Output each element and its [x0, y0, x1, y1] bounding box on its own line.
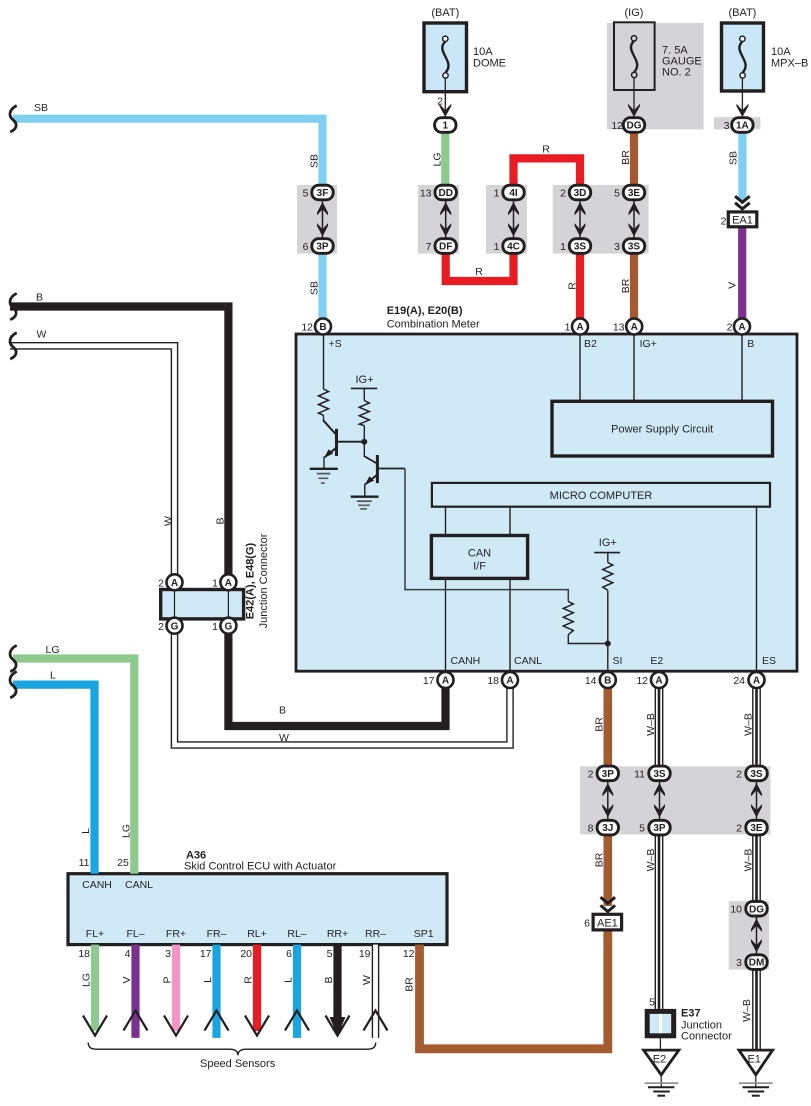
junction node on IG+ line [361, 439, 367, 445]
shading behind connector 1A [714, 117, 760, 129]
junction connector E42(A) E48(G) body [161, 590, 244, 619]
meter pin 18 A [502, 672, 518, 688]
junction node SI [605, 641, 611, 647]
connector 3S/3P arrows [654, 782, 665, 819]
svg-text:3P: 3P [602, 769, 615, 780]
junction pin 1 G [220, 618, 236, 634]
svg-text:AE1: AE1 [597, 917, 618, 929]
svg-text:B: B [279, 705, 286, 717]
junction pin 2 G [167, 618, 183, 634]
svg-text:CANH: CANH [82, 879, 112, 891]
wire ES from micro computer to pin 24 [756, 507, 758, 673]
svg-text:R: R [243, 976, 255, 984]
svg-text:DD: DD [438, 188, 452, 199]
svg-text:MICRO COMPUTER: MICRO COMPUTER [550, 490, 653, 502]
svg-text:4C: 4C [507, 242, 520, 253]
svg-text:1: 1 [212, 578, 218, 590]
svg-text:A: A [738, 322, 745, 333]
svg-text:A: A [225, 578, 232, 589]
svg-text:G: G [171, 621, 179, 632]
svg-text:W–B: W–B [741, 999, 753, 1022]
connector oval 3D [569, 185, 590, 200]
wire +S inside meter from pin 12 [323, 334, 325, 389]
meter pin 1 A [572, 319, 588, 335]
ground inside meter at Q2 [351, 497, 379, 509]
svg-text:11: 11 [79, 857, 90, 869]
svg-text:LG: LG [121, 824, 133, 838]
svg-text:V: V [121, 976, 133, 983]
wire BR from fuse GAUGE to connector 3E [630, 128, 638, 190]
svg-text:3P: 3P [653, 823, 666, 834]
svg-text:DG: DG [627, 121, 642, 132]
skid control ECU A36 body [68, 874, 447, 945]
connector oval DG [623, 118, 644, 133]
svg-text:LG: LG [46, 644, 60, 656]
svg-text:W: W [163, 516, 175, 526]
svg-text:BR: BR [620, 150, 632, 165]
shading behind connector DG/DM [729, 901, 769, 969]
svg-text:W–B: W–B [645, 849, 657, 872]
arrow down speed sensor RR+ [326, 1016, 350, 1036]
svg-text:BR: BR [594, 852, 606, 867]
svg-text:A: A [442, 676, 449, 687]
svg-text:B: B [604, 676, 611, 687]
resistor on IG+ left line [359, 401, 369, 426]
connector 3P/3J arrows [602, 782, 613, 819]
wire IG+ inside meter from pin 13 to power supply [633, 334, 635, 401]
wire BR from connector AE1 to skid ECU pin 12 SP1 [420, 930, 608, 1049]
wire L speed sensor FR- [212, 945, 220, 1038]
wire L from stub to skid ECU pin 11 [13, 685, 95, 874]
junction connector E37 [645, 1009, 677, 1050]
connector oval 3P top [597, 766, 618, 781]
svg-text:SB: SB [34, 102, 48, 114]
connector AE1 [593, 897, 622, 930]
svg-text:B: B [323, 976, 335, 983]
wire B2 inside meter from pin 1 to power supply [579, 334, 581, 401]
svg-text:E19(A), E20(B): E19(A), E20(B) [387, 305, 463, 317]
wire W-B from meter pin 12 E2 to connector 3S [655, 687, 664, 768]
connector oval 3P [312, 239, 333, 254]
svg-text:A: A [506, 676, 513, 687]
svg-text:A: A [171, 578, 178, 589]
svg-text:3: 3 [165, 948, 171, 960]
svg-text:FL+: FL+ [86, 928, 104, 940]
connector oval 3S mid [649, 766, 670, 781]
meter pin 14 B [600, 672, 616, 688]
svg-text:25: 25 [117, 857, 129, 869]
svg-text:A: A [576, 322, 583, 333]
svg-text:3S: 3S [574, 242, 587, 253]
svg-text:1: 1 [560, 241, 566, 253]
svg-text:1: 1 [565, 322, 571, 334]
ground E1 [739, 1050, 773, 1096]
connector oval 4C [503, 239, 524, 254]
svg-text:DM: DM [749, 958, 765, 969]
ground E2 [644, 1050, 679, 1096]
svg-text:A: A [753, 676, 760, 687]
svg-text:18: 18 [78, 948, 90, 960]
wire CANL inside meter to pin 18 [509, 578, 511, 672]
transistor Q2 [364, 442, 405, 497]
svg-text:2: 2 [158, 578, 164, 590]
svg-text:3S: 3S [750, 769, 763, 780]
power supply circuit box [552, 401, 773, 456]
connector oval 3F [312, 185, 333, 200]
resistor on IG+ SI line [603, 563, 613, 591]
svg-text:L: L [50, 669, 56, 681]
wire LG from fuse DOME to connector DD [441, 128, 449, 190]
svg-text:13: 13 [420, 188, 432, 200]
wire W from stub through junction connector to meter pin 18 [10, 346, 175, 582]
svg-text:6: 6 [303, 241, 309, 253]
fuse 10A DOME [424, 23, 467, 117]
svg-text:CAN: CAN [468, 548, 491, 560]
svg-text:5: 5 [639, 823, 645, 835]
svg-text:Speed Sensors: Speed Sensors [200, 1058, 276, 1070]
svg-text:DG: DG [749, 904, 764, 915]
svg-text:L: L [80, 828, 92, 834]
svg-text:2: 2 [736, 823, 742, 835]
connector oval DF [435, 239, 456, 254]
connector DD/DF arrows [440, 201, 451, 238]
wire B inside meter from pin 2 to power supply [741, 334, 743, 401]
arrow up speed sensor RR- [364, 1011, 388, 1031]
svg-text:B: B [36, 292, 43, 304]
svg-text:Combination Meter: Combination Meter [387, 318, 480, 330]
connector oval 3J [597, 820, 618, 835]
svg-text:Connector: Connector [681, 1031, 732, 1043]
svg-text:3F: 3F [317, 188, 329, 199]
wire W-B from connector DM to ground E1 [752, 967, 761, 1050]
svg-text:L: L [283, 977, 295, 983]
svg-text:6: 6 [286, 948, 292, 960]
svg-text:W–B: W–B [645, 713, 657, 736]
svg-text:3S: 3S [628, 242, 641, 253]
svg-text:CANH: CANH [451, 655, 481, 667]
wire SB from fuse MPX-B to connector EA1 [738, 128, 746, 201]
resistor on +S line [319, 389, 329, 415]
connector oval 3E [623, 185, 644, 200]
svg-text:3E: 3E [750, 823, 763, 834]
CAN I/F box [431, 536, 527, 579]
svg-text:P: P [162, 976, 174, 983]
svg-text:2: 2 [736, 769, 742, 781]
svg-text:Power Supply Circuit: Power Supply Circuit [611, 424, 713, 436]
svg-text:2: 2 [437, 96, 443, 108]
shading behind connector DD/DF [418, 185, 459, 254]
wire L speed sensor RL- [293, 945, 301, 1038]
svg-text:5: 5 [649, 997, 655, 1009]
connector 4I/4C arrows [508, 201, 519, 238]
svg-text:17: 17 [423, 675, 435, 687]
micro computer box [432, 483, 770, 507]
meter pin 12 B [315, 319, 331, 335]
svg-text:1: 1 [494, 188, 500, 200]
svg-text:20: 20 [240, 948, 252, 960]
shading behind connector 4I/4C [486, 185, 527, 254]
svg-text:2: 2 [158, 621, 164, 633]
svg-text:+S: +S [329, 338, 342, 350]
svg-text:E2: E2 [653, 1054, 666, 1066]
svg-text:7: 7 [426, 241, 432, 253]
wire SB from connector 3P to meter pin 12 [318, 250, 326, 322]
svg-text:W: W [361, 975, 373, 985]
svg-text:24: 24 [733, 675, 745, 687]
meter pin 12 E2 A [651, 672, 667, 688]
wire break squiggle W [10, 333, 17, 359]
svg-text:DF: DF [439, 242, 452, 253]
connector oval 3S right [623, 239, 644, 254]
wire IG+ resistor to SI node and pin 14 [607, 590, 609, 672]
svg-text:5: 5 [614, 188, 620, 200]
svg-text:E1: E1 [747, 1054, 760, 1066]
svg-text:3P: 3P [316, 242, 329, 253]
svg-text:R: R [542, 144, 550, 156]
svg-text:L: L [202, 977, 214, 983]
svg-text:2: 2 [588, 769, 594, 781]
svg-text:3D: 3D [574, 188, 587, 199]
svg-text:IG+: IG+ [355, 374, 373, 386]
svg-text:E42(A), E48(G): E42(A), E48(G) [245, 542, 257, 619]
svg-text:10: 10 [730, 904, 742, 916]
svg-text:1: 1 [443, 121, 449, 132]
svg-text:12: 12 [301, 322, 313, 334]
svg-text:5: 5 [303, 188, 309, 200]
arrow down speed sensor FR+ [164, 1016, 188, 1036]
svg-text:(BAT): (BAT) [431, 7, 459, 19]
svg-text:(BAT): (BAT) [728, 7, 756, 19]
wire W-B from meter pin 24 ES to connector 3S [752, 687, 761, 768]
svg-text:CANL: CANL [125, 879, 153, 891]
svg-text:5: 5 [327, 948, 333, 960]
svg-text:B: B [215, 517, 227, 524]
meter pin 17 A [438, 672, 454, 688]
shading behind connector 3F/3P [297, 185, 337, 254]
svg-text:3J: 3J [602, 823, 613, 834]
svg-text:17: 17 [200, 948, 212, 960]
meter pin 13 A [626, 319, 642, 335]
wire CANH inside meter to pin 17 [445, 578, 447, 672]
svg-text:V: V [727, 282, 739, 289]
svg-text:3: 3 [614, 241, 620, 253]
svg-text:11: 11 [634, 769, 645, 781]
fuse 10A MPX-B [722, 23, 764, 117]
meter pin 2 A [734, 319, 750, 335]
connector oval 1A [732, 118, 753, 133]
svg-text:B: B [319, 322, 326, 333]
svg-text:A: A [631, 322, 638, 333]
wire micro computer to CAN I/F left [445, 507, 447, 536]
fuse 7.5A GAUGE NO.2 [614, 22, 655, 117]
svg-text:NO. 2: NO. 2 [662, 67, 691, 79]
speed sensors brace [88, 1043, 376, 1056]
shading behind connectors 3D/3S and 3E/3S [553, 185, 649, 254]
svg-text:I/F: I/F [473, 561, 486, 573]
connector 3E/3S arrows [629, 201, 640, 238]
svg-text:19: 19 [359, 948, 371, 960]
svg-text:R: R [475, 266, 483, 278]
svg-text:18: 18 [487, 675, 499, 687]
wire break squiggle L [10, 671, 17, 697]
wire W-B from connector 3E to connector DG [752, 833, 761, 903]
svg-text:1: 1 [212, 621, 218, 633]
connector oval 3S lower right [746, 766, 767, 781]
svg-text:SB: SB [309, 154, 321, 168]
wire R speed sensor RL+ [253, 945, 261, 1031]
shading behind connectors 3P/3J 3S/3P 3S/3E [580, 766, 770, 834]
arrow down speed sensor FL+ [83, 1016, 107, 1036]
svg-text:IG+: IG+ [599, 537, 617, 549]
svg-text:IG+: IG+ [640, 338, 657, 350]
arrow into connector DG below fuse GAUGE [628, 104, 640, 117]
connector EA1 [728, 196, 757, 227]
wire break squiggle B [10, 293, 17, 319]
arrow up speed sensor FR- [205, 1011, 229, 1031]
svg-text:W: W [37, 329, 47, 341]
svg-text:8: 8 [588, 823, 594, 835]
svg-text:10A: 10A [771, 46, 791, 58]
wire BR from connector 3J to connector AE1 [603, 833, 612, 906]
connector oval DM [746, 955, 767, 970]
svg-text:Junction Connector: Junction Connector [258, 533, 270, 628]
svg-text:12: 12 [611, 120, 623, 132]
wire R from connector 4I to connector 3D [514, 158, 581, 191]
connector oval DG lower [746, 901, 767, 916]
connector 3D/3S arrows [575, 201, 586, 238]
meter pin 24 A [749, 672, 765, 688]
svg-text:4I: 4I [509, 188, 518, 199]
wire break squiggle LG [10, 645, 17, 671]
connector 3F/3P arrows [317, 201, 328, 238]
wire P speed sensor FR+ [172, 945, 180, 1031]
svg-text:Skid Control ECU with Actuator: Skid Control ECU with Actuator [184, 861, 337, 873]
svg-text:SB: SB [309, 281, 321, 295]
arrow into connector 1A below fuse MPX-B [736, 104, 748, 117]
arrow up speed sensor FL- [124, 1011, 148, 1031]
svg-text:1: 1 [494, 241, 500, 253]
connector oval 3S [569, 239, 590, 254]
svg-text:3E: 3E [628, 188, 641, 199]
svg-text:2: 2 [721, 216, 727, 228]
svg-text:1A: 1A [736, 121, 749, 132]
svg-text:DOME: DOME [473, 58, 506, 70]
svg-text:LG: LG [81, 973, 93, 987]
wire V speed sensor FL- [131, 945, 139, 1038]
wire V from connector EA1 to meter pin 2 [738, 227, 746, 322]
svg-text:R: R [567, 282, 579, 290]
svg-text:W–B: W–B [743, 849, 755, 872]
svg-text:2: 2 [560, 188, 566, 200]
svg-text:FL–: FL– [126, 928, 144, 940]
svg-text:CANL: CANL [514, 655, 542, 667]
svg-text:RR–: RR– [365, 928, 386, 940]
wire BR from connector 3S to meter pin 13 [630, 250, 638, 322]
wire B speed sensor RR+ [333, 945, 341, 1031]
wire break squiggle SB [10, 106, 17, 132]
connector oval 3P bottom [649, 820, 670, 835]
transistor Q1 [323, 415, 364, 469]
svg-text:G: G [225, 621, 233, 632]
svg-text:3: 3 [724, 120, 730, 132]
wire BR from meter pin 14 SI to connector 3P [603, 686, 612, 768]
svg-text:2: 2 [727, 322, 733, 334]
connector 3S/3E arrows [751, 782, 762, 819]
svg-text:RR+: RR+ [327, 928, 348, 940]
svg-text:B2: B2 [584, 338, 597, 350]
svg-text:SP1: SP1 [414, 928, 434, 940]
svg-text:10A: 10A [473, 46, 493, 58]
arrow up speed sensor RL- [285, 1011, 309, 1031]
svg-text:SB: SB [728, 151, 740, 165]
connector oval DD [435, 185, 456, 200]
svg-text:14: 14 [585, 675, 597, 687]
svg-text:12: 12 [403, 948, 415, 960]
svg-text:BR: BR [594, 717, 606, 732]
junction pin 1 A [220, 574, 236, 590]
svg-text:W–B: W–B [743, 713, 755, 736]
svg-text:E2: E2 [650, 655, 663, 667]
svg-text:3: 3 [736, 957, 742, 969]
arrow down speed sensor RL+ [245, 1016, 269, 1036]
junction pin 2 A [167, 574, 183, 590]
arrow into connector 1 below fuse DOME [439, 104, 451, 117]
svg-text:LG: LG [432, 152, 444, 166]
svg-text:13: 13 [613, 322, 625, 334]
svg-text:12: 12 [636, 675, 648, 687]
wire SB from battery stub to connector 3F [13, 115, 323, 123]
shading behind fuse GAUGE NO.2 and connector DG [607, 23, 704, 129]
svg-text:SI: SI [613, 655, 623, 667]
svg-text:4: 4 [125, 948, 131, 960]
svg-text:EA1: EA1 [732, 215, 753, 227]
svg-text:FR+: FR+ [166, 928, 186, 940]
wire B from stub through junction connector to meter pin 17 [10, 307, 228, 583]
connector oval 4I [503, 185, 524, 200]
wire R from connector 3S to meter pin 1 [576, 250, 584, 322]
svg-text:BR: BR [404, 977, 416, 992]
svg-text:A: A [655, 676, 662, 687]
svg-text:6: 6 [584, 918, 590, 930]
connector DG/DM arrows [751, 917, 762, 954]
svg-text:MPX–B: MPX–B [771, 58, 808, 70]
connector oval 1 [435, 118, 456, 133]
svg-text:E37: E37 [681, 1008, 701, 1020]
resistor to SI node [563, 601, 573, 634]
wire R from connector DF to connector 4C [446, 248, 514, 281]
wire LG speed sensor FL+ [91, 945, 99, 1031]
combination meter E19(A),E20(B) body [296, 334, 797, 671]
svg-text:RL+: RL+ [247, 928, 267, 940]
connector oval 3E lower [746, 820, 767, 835]
svg-text:B: B [747, 338, 754, 350]
wire LG from stub to skid ECU pin 25 [13, 659, 134, 874]
wire micro computer to CAN I/F right [509, 507, 511, 536]
wire from Q2 collector to SI resistor [405, 469, 568, 602]
svg-text:W: W [279, 732, 289, 744]
svg-text:3S: 3S [653, 769, 666, 780]
wire W speed sensor RR- [372, 945, 380, 1038]
ground inside meter at Q1 [310, 469, 338, 483]
wire W-B from connector 3P to junction connector E37 [655, 833, 664, 1009]
svg-text:FR–: FR– [207, 928, 227, 940]
svg-text:RL–: RL– [287, 928, 306, 940]
svg-text:ES: ES [762, 655, 776, 667]
svg-text:(IG): (IG) [625, 7, 644, 19]
svg-text:BR: BR [620, 278, 632, 293]
